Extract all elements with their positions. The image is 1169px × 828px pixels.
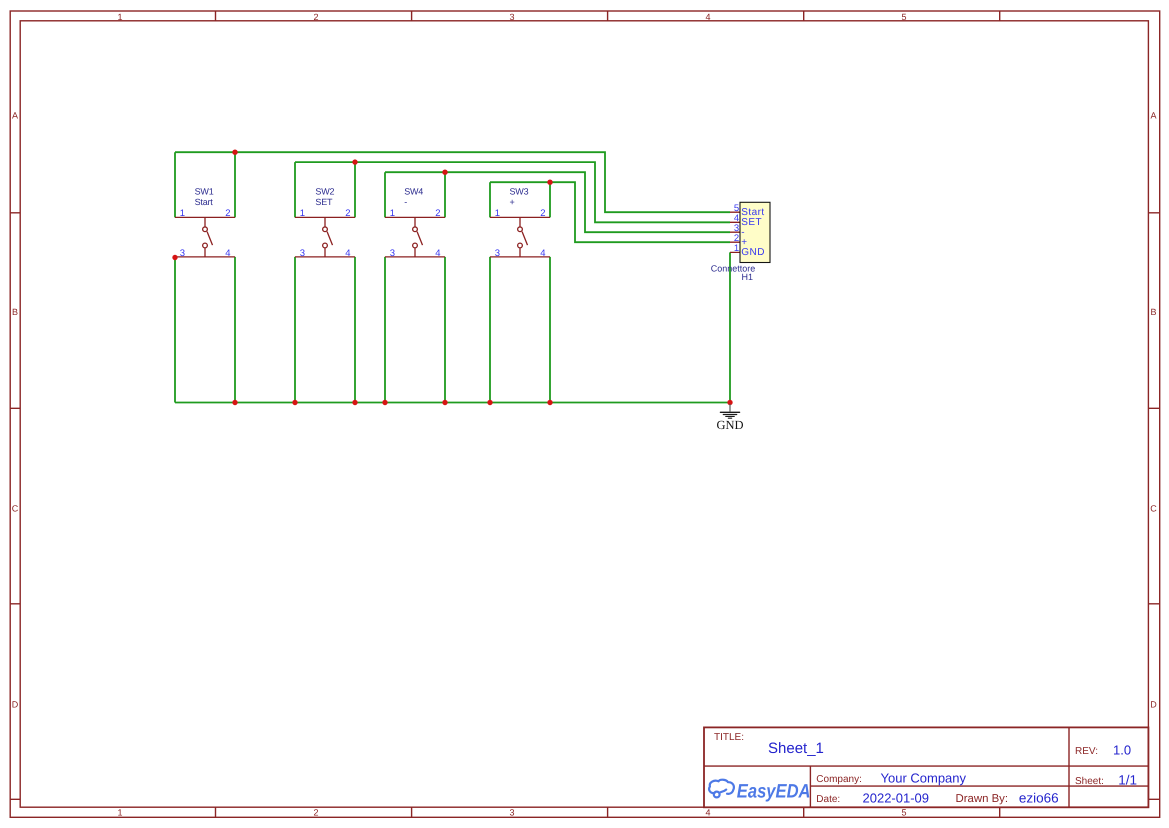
svg-text:Date:: Date: xyxy=(816,794,840,805)
svg-text:Your Company: Your Company xyxy=(881,771,967,786)
svg-text:2: 2 xyxy=(313,12,318,22)
svg-text:3: 3 xyxy=(509,808,514,818)
svg-text:D: D xyxy=(12,700,19,710)
svg-text:4: 4 xyxy=(225,248,230,259)
svg-text:3: 3 xyxy=(390,248,395,259)
svg-text:H1: H1 xyxy=(742,272,754,282)
svg-text:Start: Start xyxy=(195,197,214,207)
svg-text:1: 1 xyxy=(495,208,500,219)
svg-text:ezio66: ezio66 xyxy=(1019,791,1059,806)
svg-text:5: 5 xyxy=(901,808,906,818)
svg-text:A: A xyxy=(1150,111,1156,121)
svg-text:3: 3 xyxy=(300,248,305,259)
svg-text:3: 3 xyxy=(509,12,514,22)
svg-text:2: 2 xyxy=(225,208,230,219)
svg-text:SW4: SW4 xyxy=(404,187,423,197)
svg-text:+: + xyxy=(510,197,515,207)
svg-text:5: 5 xyxy=(901,12,906,22)
svg-text:2: 2 xyxy=(345,208,350,219)
svg-text:Sheet:: Sheet: xyxy=(1075,776,1104,787)
svg-text:TITLE:: TITLE: xyxy=(714,732,744,743)
svg-text:1: 1 xyxy=(117,808,122,818)
svg-text:2: 2 xyxy=(540,208,545,219)
svg-text:3: 3 xyxy=(495,248,500,259)
svg-text:-: - xyxy=(404,197,407,207)
svg-text:4: 4 xyxy=(540,248,545,259)
svg-text:D: D xyxy=(1150,700,1157,710)
svg-text:B: B xyxy=(12,307,18,317)
svg-text:1: 1 xyxy=(180,208,185,219)
svg-text:A: A xyxy=(12,111,18,121)
svg-text:REV:: REV: xyxy=(1075,746,1098,757)
svg-text:4: 4 xyxy=(705,808,710,818)
svg-text:SW2: SW2 xyxy=(315,187,334,197)
svg-text:Drawn By:: Drawn By: xyxy=(956,793,1009,805)
svg-text:2: 2 xyxy=(313,808,318,818)
svg-text:2022-01-09: 2022-01-09 xyxy=(863,791,930,806)
svg-text:4: 4 xyxy=(435,248,440,259)
svg-text:SET: SET xyxy=(315,197,333,207)
svg-text:C: C xyxy=(12,503,19,513)
svg-text:1: 1 xyxy=(117,12,122,22)
svg-text:3: 3 xyxy=(180,248,185,259)
svg-text:GND: GND xyxy=(716,418,743,432)
svg-text:GND: GND xyxy=(741,247,765,258)
svg-text:Company:: Company: xyxy=(816,774,862,785)
svg-text:1: 1 xyxy=(734,243,739,254)
svg-text:1: 1 xyxy=(300,208,305,219)
svg-text:1: 1 xyxy=(390,208,395,219)
svg-text:SW1: SW1 xyxy=(195,187,214,197)
svg-text:SW3: SW3 xyxy=(510,187,529,197)
svg-text:4: 4 xyxy=(345,248,350,259)
svg-text:1/1: 1/1 xyxy=(1118,773,1137,788)
svg-text:EasyEDA: EasyEDA xyxy=(737,781,811,803)
svg-text:4: 4 xyxy=(705,12,710,22)
svg-text:Sheet_1: Sheet_1 xyxy=(768,740,824,757)
svg-text:C: C xyxy=(1150,503,1157,513)
svg-text:B: B xyxy=(1150,307,1156,317)
svg-text:1.0: 1.0 xyxy=(1113,743,1131,758)
svg-text:2: 2 xyxy=(435,208,440,219)
